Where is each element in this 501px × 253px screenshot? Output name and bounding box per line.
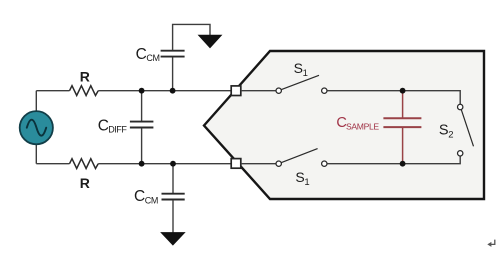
resistor R1 (top) [70, 86, 99, 96]
ground (top) [199, 35, 222, 47]
wire to ground (top) [173, 24, 210, 50]
wire: bottom square to S1 [241, 163, 276, 165]
wire: S1 top to S2 corner [327, 91, 460, 104]
wire: top square to S1 [241, 90, 276, 92]
svg-text:CM: CM [145, 195, 158, 205]
capacitor CCM (bottom) [172, 164, 174, 194]
wire to ground (bottom) [172, 200, 174, 233]
capacitor CCM (top) [172, 57, 174, 90]
junction node (top wire / CCM) [170, 88, 176, 94]
ground (bottom) [161, 233, 184, 245]
ADC front-end pentagon outline [204, 51, 484, 199]
svg-text:R: R [80, 68, 90, 84]
svg-text:C: C [134, 188, 145, 205]
switch S2 [458, 104, 463, 109]
junction node (bottom wire / CSAMPLE) [400, 161, 406, 167]
svg-text:DIFF: DIFF [108, 125, 127, 135]
junction node (bottom wire / CDIFF) [139, 161, 145, 167]
junction node (top wire / CDIFF) [139, 88, 145, 94]
svg-text:S: S [294, 60, 303, 76]
svg-text:S: S [295, 169, 304, 185]
wire [98, 90, 232, 92]
junction node (top wire / CSAMPLE) [400, 88, 406, 94]
svg-text:S: S [439, 123, 449, 139]
svg-text:1: 1 [304, 177, 309, 188]
svg-text:SAMPLE: SAMPLE [346, 122, 379, 132]
junction node (bottom wire / CCM) [170, 161, 176, 167]
wire source vertical left [35, 91, 37, 111]
capacitor CDIFF [141, 91, 143, 121]
wire top horizontal from source to ADC [36, 90, 69, 92]
wire [98, 163, 232, 165]
ADC input terminal (bottom square) [231, 159, 241, 169]
svg-text:2: 2 [448, 130, 453, 141]
ADC input terminal (top square) [231, 86, 241, 96]
return glyph bottom-right [490, 240, 495, 245]
switch S1 (bottom) [276, 161, 281, 166]
wire bottom horizontal from source to ADC [36, 163, 69, 165]
AC source V1 [20, 111, 53, 144]
wire: S1 bottom to S2 corner [327, 156, 460, 164]
svg-text:1: 1 [303, 68, 308, 79]
svg-text:CM: CM [146, 53, 159, 63]
svg-text:C: C [136, 46, 147, 63]
resistor R2 (bottom) [70, 159, 99, 169]
svg-text:R: R [80, 175, 90, 191]
switch S1 (top) [276, 88, 281, 93]
capacitor CSAMPLE [402, 91, 404, 118]
